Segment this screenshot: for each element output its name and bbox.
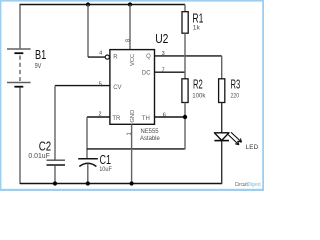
svg-text:2: 2 (98, 112, 101, 118)
svg-text:R3: R3 (231, 77, 241, 91)
svg-text:1k: 1k (193, 25, 201, 32)
wire R2 to TH node (184, 103, 186, 150)
wire R3 to LED (221, 103, 223, 133)
wire vcc branch (129, 5, 131, 50)
wire gnd pin (131, 124, 133, 183)
svg-text:1: 1 (126, 132, 132, 135)
svg-text:10uF: 10uF (99, 166, 112, 173)
pin bubble R (105, 55, 109, 59)
svg-text:LED: LED (246, 144, 259, 151)
svg-text:Q: Q (146, 54, 151, 60)
node junction C2 ground (53, 181, 57, 185)
wire R1 to R2 (184, 33, 186, 79)
svg-text:9V: 9V (35, 61, 42, 70)
svg-text:GND: GND (130, 110, 136, 123)
LED (214, 132, 241, 145)
svg-text:VCC: VCC (130, 54, 136, 66)
svg-text:6: 6 (163, 113, 166, 119)
svg-text:C1: C1 (100, 153, 112, 167)
svg-text:100k: 100k (192, 93, 206, 100)
node junction TH (183, 115, 187, 119)
svg-text:DC: DC (142, 70, 151, 76)
node junction gnd (130, 181, 134, 185)
wire left from top rail to battery (19, 5, 21, 49)
capacitor C2 (47, 160, 66, 183)
wire feedback TR to TH (87, 148, 185, 150)
wire TH pin (155, 116, 186, 118)
svg-text:7: 7 (162, 67, 165, 73)
node junction C1 ground (86, 181, 90, 185)
svg-text:R1: R1 (192, 12, 203, 26)
svg-text:NE555: NE555 (141, 128, 159, 135)
svg-text:0.01uF: 0.01uF (28, 153, 49, 160)
svg-text:TR: TR (112, 116, 121, 122)
svg-text:C2: C2 (39, 139, 51, 153)
capacitor C1 (78, 159, 98, 184)
svg-text:B1: B1 (35, 48, 46, 62)
wire output Q to R3 (155, 56, 222, 79)
wire discharge DC (155, 71, 186, 73)
svg-text:5: 5 (99, 81, 102, 87)
resistor R1 (182, 12, 188, 34)
svg-text:TH: TH (142, 116, 150, 122)
resistor R3 (219, 79, 225, 103)
svg-text:U2: U2 (155, 32, 168, 46)
wire trigger branch (87, 117, 110, 158)
resistor R2 (182, 79, 188, 103)
battery B1 (7, 49, 31, 87)
svg-text:CV: CV (113, 85, 121, 91)
svg-text:4: 4 (99, 51, 102, 57)
node junction top pin8 (128, 2, 132, 6)
svg-text:220: 220 (231, 93, 240, 100)
wire cv branch (55, 86, 110, 160)
border frame (0, 0, 264, 191)
svg-text:CircuitDigest: CircuitDigest (235, 182, 261, 189)
wire bottom rail (20, 183, 222, 185)
svg-text:R2: R2 (193, 77, 203, 91)
IC U2 NE555 body (110, 50, 155, 125)
wire LED to bottom rail (221, 141, 223, 184)
svg-text:R: R (113, 55, 118, 61)
node junction top pin4 (86, 2, 90, 6)
svg-text:Astable: Astable (140, 135, 160, 142)
svg-text:8: 8 (125, 39, 131, 42)
wire top rail to R1 (184, 5, 186, 12)
wire top rail (19, 4, 185, 6)
wire reset branch (88, 5, 105, 58)
wire battery to bottom rail (19, 87, 21, 184)
svg-text:3: 3 (162, 51, 165, 57)
